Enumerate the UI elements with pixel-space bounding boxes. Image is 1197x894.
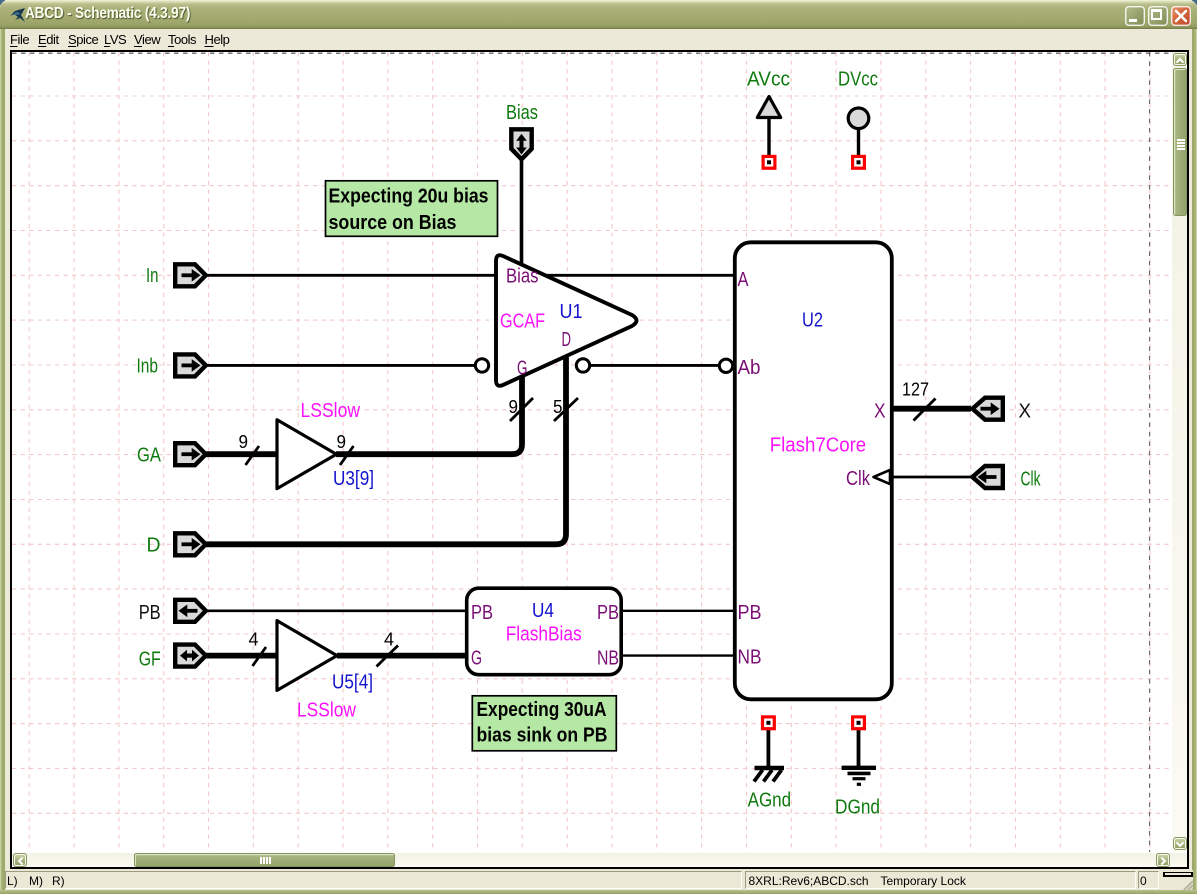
svg-text:9: 9 <box>239 432 249 452</box>
svg-text:PB: PB <box>597 602 619 624</box>
svg-text:G: G <box>471 648 482 670</box>
svg-text:DGnd: DGnd <box>835 797 880 819</box>
svg-text:5: 5 <box>553 397 563 417</box>
svg-text:G: G <box>517 358 528 380</box>
svg-text:9: 9 <box>509 397 519 417</box>
svg-text:U3[9]: U3[9] <box>333 468 374 490</box>
svg-text:source on Bias: source on Bias <box>329 212 457 234</box>
svg-text:Inb: Inb <box>137 355 159 377</box>
svg-text:U5[4]: U5[4] <box>332 672 373 694</box>
svg-text:4: 4 <box>384 630 394 650</box>
svg-text:AVcc: AVcc <box>747 68 790 90</box>
svg-text:Ab: Ab <box>738 357 761 379</box>
svg-text:Bias: Bias <box>506 102 538 124</box>
svg-text:U2: U2 <box>802 310 823 332</box>
svg-text:U4: U4 <box>532 600 554 622</box>
svg-text:FlashBias: FlashBias <box>506 624 582 646</box>
svg-text:D: D <box>562 329 572 351</box>
svg-text:9: 9 <box>337 432 347 452</box>
svg-text:Flash7Core: Flash7Core <box>770 434 867 456</box>
svg-text:LSSlow: LSSlow <box>301 400 361 422</box>
svg-text:GF: GF <box>139 649 161 671</box>
svg-text:Clk: Clk <box>846 468 871 490</box>
svg-text:Expecting 20u bias: Expecting 20u bias <box>329 185 489 207</box>
svg-text:GCAF: GCAF <box>500 311 545 333</box>
svg-text:DVcc: DVcc <box>838 68 878 90</box>
svg-text:Bias: Bias <box>506 266 539 288</box>
svg-text:LSSlow: LSSlow <box>297 700 356 722</box>
svg-text:4: 4 <box>249 630 259 650</box>
svg-text:bias sink on PB: bias sink on PB <box>477 725 608 747</box>
svg-text:X: X <box>874 401 886 423</box>
svg-text:GA: GA <box>137 445 162 467</box>
svg-text:NB: NB <box>738 646 762 668</box>
svg-text:PB: PB <box>471 602 493 624</box>
svg-text:Expecting 30uA: Expecting 30uA <box>477 699 607 721</box>
svg-text:A: A <box>738 269 750 291</box>
svg-text:D: D <box>147 535 161 557</box>
svg-text:PB: PB <box>738 602 762 624</box>
svg-text:NB: NB <box>597 648 619 670</box>
svg-text:X: X <box>1019 401 1032 423</box>
svg-text:U1: U1 <box>560 301 583 323</box>
svg-text:AGnd: AGnd <box>748 789 792 811</box>
svg-text:127: 127 <box>902 380 929 400</box>
svg-text:PB: PB <box>139 602 161 624</box>
svg-text:In: In <box>146 265 159 287</box>
svg-text:Clk: Clk <box>1021 469 1042 491</box>
